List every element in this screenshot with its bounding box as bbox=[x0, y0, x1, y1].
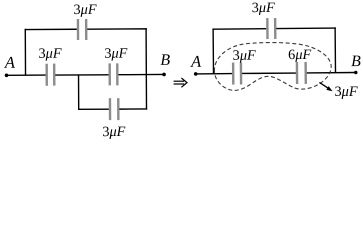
wire left riser of bottom loop bbox=[78, 75, 80, 110]
node B dot bbox=[354, 71, 357, 74]
svg-text:3μF: 3μF bbox=[102, 124, 125, 140]
wire bottom loop right segment bbox=[119, 108, 147, 110]
node A dot bbox=[5, 74, 9, 78]
svg-text:3μF: 3μF bbox=[73, 2, 96, 18]
svg-text:6μF: 6μF bbox=[288, 47, 311, 63]
svg-text:3μF: 3μF bbox=[252, 0, 275, 16]
dashed grouping blob around C5 and C6 bbox=[214, 42, 331, 91]
wire C5 to capacitor C6 bbox=[242, 72, 296, 74]
wire A to capacitor C1 bbox=[7, 74, 46, 76]
capacitor C4 3uF plates (bottom loop) bbox=[109, 98, 112, 120]
svg-text:A: A bbox=[4, 53, 16, 72]
arrow from blob to equivalent value bbox=[319, 82, 357, 100]
capacitor C3 3uF plates (top branch) bbox=[77, 19, 80, 40]
right circuit bbox=[190, 0, 362, 91]
wire top branch right segment bbox=[87, 28, 146, 30]
wire right riser (top branch down through main wire to bottom loop) bbox=[145, 28, 147, 109]
wire A to capacitor C5 bbox=[196, 73, 232, 75]
wire bottom loop left segment bbox=[78, 108, 109, 110]
node B dot bbox=[162, 73, 166, 77]
wire C1 to capacitor C2 bbox=[55, 74, 108, 76]
capacitor C6 6uF plates bbox=[296, 62, 299, 84]
svg-text:B: B bbox=[351, 53, 361, 70]
capacitor C5 3uF plates bbox=[232, 63, 235, 85]
svg-text:3μF: 3μF bbox=[335, 84, 358, 100]
svg-text:3μF: 3μF bbox=[104, 46, 127, 62]
wire top branch right segment bbox=[276, 27, 335, 30]
capacitor C1 3uF plates bbox=[45, 64, 48, 86]
svg-text:B: B bbox=[160, 52, 170, 69]
wire left riser of top branch bbox=[212, 28, 214, 73]
wire left riser of top branch bbox=[24, 29, 26, 75]
wire C2 to node B bbox=[118, 73, 164, 75]
svg-text:3μF: 3μF bbox=[38, 46, 61, 62]
equivalence double arrow bbox=[174, 78, 187, 87]
wire C6 to node B bbox=[307, 71, 356, 73]
wire top branch left segment bbox=[25, 28, 77, 30]
svg-text:3μF: 3μF bbox=[233, 48, 256, 64]
node A dot bbox=[194, 72, 198, 76]
wire top branch left segment bbox=[212, 28, 266, 30]
capacitor C2 3uF plates bbox=[108, 63, 111, 85]
svg-text:A: A bbox=[190, 52, 202, 71]
capacitor C7 3uF plates (top branch) bbox=[266, 18, 269, 39]
left circuit bbox=[4, 1, 171, 140]
wire right riser of top branch bbox=[334, 27, 336, 72]
